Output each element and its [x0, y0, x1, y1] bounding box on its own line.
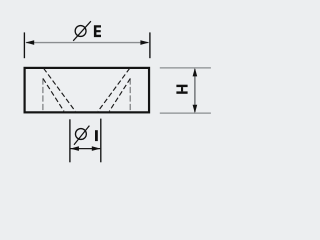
dimension I: right arrowhead [92, 146, 101, 151]
hidden cone outer left diagonal [44, 68, 76, 111]
hidden bore line left (vertical dashed) [42, 78, 44, 111]
label H (rotated 90deg) [176, 85, 187, 94]
dimension H: top extension line [160, 67, 211, 69]
dimension E: right extension line [149, 32, 151, 58]
dimension E: left arrowhead [25, 40, 34, 45]
dimension E: left extension line [23, 32, 25, 58]
body outline rectangle (cross-section of wheel) [25, 68, 149, 112]
diameter symbol of E label [73, 21, 91, 41]
diameter symbol of I label [74, 126, 89, 145]
dimension H: top arrowhead [193, 68, 198, 77]
dimension I: left arrowhead [70, 146, 79, 151]
dimension H: bottom extension line [160, 112, 211, 114]
label E [94, 25, 101, 37]
dimension I: dimension line [70, 148, 100, 150]
hidden bore line right (vertical dashed) [129, 78, 131, 111]
hidden cone inner right diagonal [109, 79, 130, 112]
dimension H: dimension line [194, 69, 196, 112]
label I [95, 130, 98, 141]
dimension E: dimension line [26, 42, 149, 44]
dimension E: right arrowhead [140, 40, 149, 45]
hidden cone outer right diagonal [98, 68, 130, 111]
dimension I: left extension line [69, 119, 71, 162]
dimension H: bottom arrowhead [193, 105, 198, 114]
dimension I: right extension line [100, 119, 102, 163]
hidden cone inner left diagonal [43, 79, 64, 112]
